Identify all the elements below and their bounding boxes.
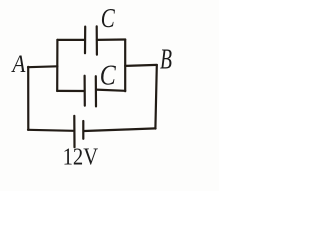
wire parallel box right to node B (125, 65, 157, 66)
svg-text:B: B (160, 45, 172, 76)
background paper (0, 0, 219, 191)
capacitor C1 right plate (96, 26, 98, 54)
wire bottom branch right (96, 90, 125, 91)
wire parallel box right side (124, 40, 126, 92)
capacitor C2 left plate (83, 76, 85, 106)
battery V1 long plate (73, 116, 75, 147)
wire battery to bottom right corner (84, 128, 155, 131)
wire left outer vertical (27, 67, 29, 130)
wire bottom branch left (57, 90, 84, 92)
wire top branch right (97, 38, 125, 41)
wire top branch left (57, 39, 85, 41)
wire right outer vertical (155, 65, 156, 128)
wire parallel box left side (56, 40, 58, 91)
wire bottom left to battery (28, 130, 73, 131)
capacitor C1 left plate (84, 27, 86, 54)
svg-text:C: C (100, 60, 117, 91)
capacitor C2 right plate (95, 76, 97, 106)
svg-text:C: C (101, 3, 116, 33)
svg-text:12V: 12V (63, 144, 99, 171)
battery V1 short plate (82, 121, 84, 139)
wire node A to parallel box left (28, 65, 57, 68)
svg-text:A: A (11, 49, 26, 78)
